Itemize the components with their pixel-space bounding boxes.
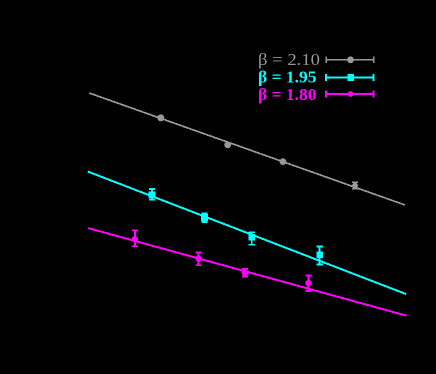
- fit line beta=1.80 (magenta): [88, 228, 406, 316]
- cyan error bar 4: [316, 247, 322, 265]
- cyan error bar 2: [201, 213, 207, 222]
- cyan data point 1 (square): [149, 191, 156, 198]
- fit line beta=1.95 (cyan): [88, 172, 406, 295]
- legend marker beta=1.80: [348, 91, 354, 97]
- svg-text:β = 1.95: β = 1.95: [258, 67, 317, 86]
- cyan data point 3 (square): [249, 234, 256, 241]
- magenta error bar 4: [305, 276, 311, 291]
- legend entry beta=1.95 sample line: [326, 74, 374, 81]
- magenta data point 3: [242, 270, 248, 276]
- cyan error bar 3: [249, 232, 255, 245]
- magenta error bar 2: [196, 252, 202, 265]
- gray data point 2: [224, 142, 231, 149]
- cyan data point 4 (square): [316, 252, 323, 259]
- legend marker beta=1.95 (square): [347, 74, 354, 81]
- magenta data point 4: [305, 280, 311, 286]
- cyan error bar 1: [149, 189, 155, 200]
- svg-text:β = 1.80: β = 1.80: [258, 85, 317, 104]
- magenta error bar 1: [132, 230, 138, 246]
- magenta data point 2: [195, 256, 201, 262]
- legend entry beta=1.80 sample line: [326, 91, 374, 98]
- magenta error bar 3: [242, 269, 248, 277]
- legend entry beta=2.10 sample line: [326, 57, 374, 63]
- magenta data point 1: [132, 236, 138, 242]
- svg-text:β = 2.10: β = 2.10: [258, 50, 320, 69]
- legend marker beta=2.10: [347, 56, 354, 63]
- gray data point 1: [157, 114, 164, 121]
- gray data point 4 with error bar: [352, 182, 358, 188]
- fit line beta=2.10 (gray): [89, 93, 405, 205]
- cyan data point 2 (square): [201, 214, 208, 221]
- gray data point 3: [280, 158, 287, 165]
